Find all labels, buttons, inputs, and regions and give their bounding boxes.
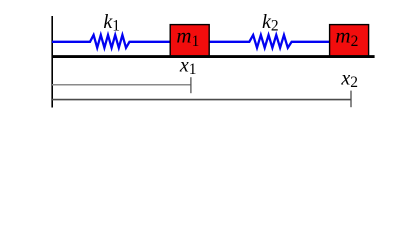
svg-text:k2: k2 xyxy=(262,11,279,35)
svg-text:k1: k1 xyxy=(103,11,120,35)
svg-text:x2: x2 xyxy=(340,67,358,91)
